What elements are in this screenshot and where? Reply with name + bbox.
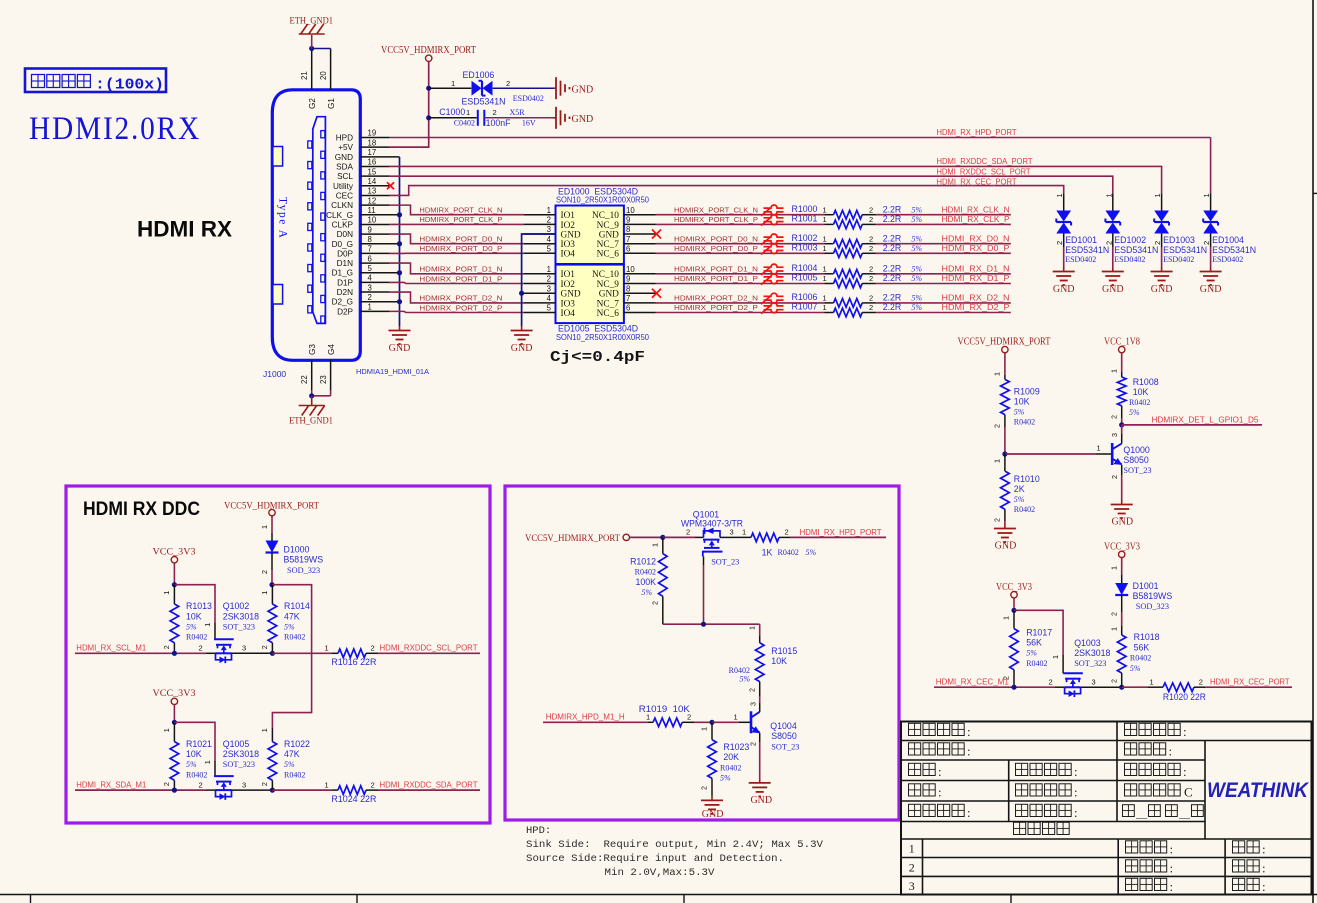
svg-text:1: 1 <box>260 525 269 529</box>
svg-text::: : <box>1074 805 1078 820</box>
junction gate node <box>701 622 706 627</box>
resistor R1024 22R <box>272 780 378 804</box>
wire gate node to R1015 <box>759 624 761 636</box>
sheet title HDMI2.0RX <box>29 111 201 147</box>
title cell 纸张型号C <box>1125 784 1193 800</box>
pin 1 D2P <box>337 303 390 317</box>
svg-text:1: 1 <box>1104 193 1113 197</box>
svg-text:20: 20 <box>319 71 328 80</box>
tvs diode ED1004 <box>1202 193 1256 263</box>
wire HDMIRX_PORT_D0_P <box>390 252 524 254</box>
power port VCC_3V3 d1001 <box>1104 542 1140 558</box>
junction chip GND ED1005 <box>519 291 524 296</box>
pin 22 stub <box>300 360 312 396</box>
svg-text:B5819WS: B5819WS <box>1133 591 1173 601</box>
svg-text:3: 3 <box>730 528 734 537</box>
resistor R1019 10K <box>639 704 694 727</box>
wire D1000 to junction <box>260 553 272 585</box>
svg-text:HDMI_RX_SCL_M1: HDMI_RX_SCL_M1 <box>76 644 146 653</box>
svg-text::: : <box>1183 764 1187 779</box>
svg-text:17: 17 <box>368 148 377 157</box>
svg-text:10: 10 <box>368 216 377 225</box>
svg-text:1: 1 <box>1055 193 1064 197</box>
svg-text:ESD0402: ESD0402 <box>1114 255 1145 264</box>
junction VCC R1013 <box>172 582 177 587</box>
svg-text:GND: GND <box>702 809 724 820</box>
svg-text:HDMI_RX_D0_N: HDMI_RX_D0_N <box>942 234 1010 243</box>
svg-text:3: 3 <box>242 644 246 653</box>
svg-text:G1: G1 <box>327 98 336 109</box>
pin 11 CLK_G <box>326 206 399 220</box>
svg-text:2: 2 <box>493 108 497 117</box>
wire HDMIRX_PORT_CLK_P row <box>656 223 825 225</box>
svg-text:R0402: R0402 <box>1129 398 1150 407</box>
svg-text::: : <box>967 744 971 759</box>
wire HDMI_RX_CLK_N out <box>876 214 1011 216</box>
pin 5 D1_G <box>332 264 400 278</box>
mosfet Q1005 2SK3018 <box>199 739 273 800</box>
svg-text:GND: GND <box>511 343 533 354</box>
svg-text:WPM3407-3/TR: WPM3407-3/TR <box>681 518 743 528</box>
svg-text:D1001: D1001 <box>1133 581 1159 591</box>
svg-text:15: 15 <box>368 167 377 176</box>
wire ED1001 to GND <box>1063 247 1065 267</box>
net label HDMIRX_PORT_D2_N mid <box>674 294 758 303</box>
svg-text:1: 1 <box>325 644 329 653</box>
svg-text:C: C <box>1184 785 1193 800</box>
svg-text:2.2R: 2.2R <box>883 302 902 312</box>
svg-text:2: 2 <box>162 782 171 786</box>
svg-text:23: 23 <box>319 375 328 384</box>
esd array ED1005 <box>524 265 656 342</box>
power port VCC5V_HDMIRX_PORT hpd <box>525 534 630 544</box>
junction GND bus pin 2 <box>397 299 402 304</box>
svg-text:10K: 10K <box>186 611 202 621</box>
mosfet Q1002 2SK3018 <box>199 601 273 663</box>
svg-text:7: 7 <box>368 245 372 254</box>
svg-text:HDMI_RX_D2_N: HDMI_RX_D2_N <box>942 294 1010 303</box>
net label HDMIRX_HPD_M1_H <box>546 713 625 722</box>
transistor Q1004 S8050 <box>751 711 799 751</box>
tvs diode ED1001 <box>1055 193 1109 263</box>
svg-text:16V: 16V <box>522 118 536 127</box>
svg-text:3: 3 <box>368 283 372 292</box>
svg-text:2: 2 <box>1049 677 1053 686</box>
pin 23 stub <box>319 360 331 396</box>
svg-text:S8050: S8050 <box>771 731 797 741</box>
resistor R1021 <box>162 722 212 790</box>
svg-text:1: 1 <box>823 303 827 312</box>
junction ETH top <box>309 46 314 51</box>
title row 1 number <box>909 842 915 856</box>
wire HDMI_RX_CLK_P out <box>876 223 1011 225</box>
svg-text:1: 1 <box>823 205 827 214</box>
svg-text:5%: 5% <box>284 760 295 769</box>
svg-text::: : <box>1262 842 1266 857</box>
pin 2 D2_G <box>332 293 400 307</box>
svg-text:1: 1 <box>325 780 329 789</box>
svg-text:1: 1 <box>1150 677 1154 686</box>
svg-text:1: 1 <box>547 265 551 274</box>
svg-text:CLK_G: CLK_G <box>326 211 353 220</box>
section frame HPD <box>505 486 899 820</box>
title cell 完成时间 <box>1016 804 1078 820</box>
pin 15 SCL <box>337 167 390 181</box>
logo WEATHINK <box>1207 779 1310 802</box>
svg-text:2.2R: 2.2R <box>883 273 902 283</box>
svg-text:2: 2 <box>748 742 757 746</box>
net label HDMIRX_PORT_D2_P mid <box>674 303 758 312</box>
svg-text:1: 1 <box>823 274 827 283</box>
title cell 受控类型 <box>1125 763 1187 779</box>
junction VCC R1021 <box>172 720 177 725</box>
svg-text:GND: GND <box>599 290 619 300</box>
diode D1001 B5819WS <box>1115 581 1172 611</box>
svg-text:Q1004: Q1004 <box>770 721 797 731</box>
svg-text:CLKP: CLKP <box>332 220 354 229</box>
junction row R1021 <box>172 788 177 793</box>
svg-text:5%: 5% <box>1130 664 1141 673</box>
title row 3 日期 <box>1233 878 1266 894</box>
wire HDMI_RX_D0_N out <box>876 243 1011 245</box>
svg-text:1: 1 <box>1109 369 1118 373</box>
svg-text:10K: 10K <box>186 749 202 759</box>
svg-text:HDMI_RX_SDA_M1: HDMI_RX_SDA_M1 <box>76 781 146 790</box>
wire VCC5V to Q1001 <box>630 536 663 538</box>
svg-text:R0402: R0402 <box>1130 654 1151 663</box>
svg-text:3: 3 <box>1110 433 1119 437</box>
svg-text:HDMIRX_PORT_CLK_P: HDMIRX_PORT_CLK_P <box>674 215 758 224</box>
svg-text:1: 1 <box>1109 627 1118 631</box>
svg-text:7: 7 <box>626 294 630 303</box>
svg-text:Utility: Utility <box>333 182 354 191</box>
svg-text:2.2R: 2.2R <box>883 233 902 243</box>
power port VCC_1V8 <box>1104 337 1140 353</box>
junction row R1013 <box>172 651 177 656</box>
net label HDMI_RX_D0_N <box>942 234 1010 243</box>
svg-text:R0402: R0402 <box>1014 505 1035 514</box>
svg-text::: : <box>1262 861 1266 876</box>
svg-text:R1012: R1012 <box>630 557 656 567</box>
svg-text:2: 2 <box>547 275 551 284</box>
svg-text:2: 2 <box>506 79 510 88</box>
ground under connector <box>389 326 411 354</box>
svg-text:2: 2 <box>1199 677 1203 686</box>
svg-text:D0N: D0N <box>337 230 353 239</box>
wire to gate Q1005 <box>174 722 215 776</box>
wire cec port out <box>1205 686 1292 688</box>
wire D1000 to R1014/R1022 <box>272 585 312 728</box>
svg-text:VCC5V_HDMIRX_PORT: VCC5V_HDMIRX_PORT <box>525 534 620 544</box>
pin 6 D1N <box>337 254 390 268</box>
no-connect pin 14 <box>387 182 394 189</box>
svg-text:Source Side:Require input and: Source Side:Require input and Detection. <box>526 853 784 865</box>
svg-text:1: 1 <box>823 234 827 243</box>
svg-text:HDMI_RX_CEC_M1: HDMI_RX_CEC_M1 <box>936 678 1009 687</box>
svg-text:VCC5V_HDMIRX_PORT: VCC5V_HDMIRX_PORT <box>381 45 476 56</box>
svg-text:2: 2 <box>869 244 873 253</box>
svg-text:9: 9 <box>626 216 630 225</box>
ground ED1004 <box>1200 267 1222 295</box>
svg-text:Sink Side: Require output, Mi: Sink Side: Require output, Min 2.4V; Max… <box>526 839 824 851</box>
wire hpd port out <box>790 536 886 538</box>
pin 14 Utility <box>333 177 390 191</box>
svg-text:SOT_23: SOT_23 <box>771 742 799 751</box>
net label HDMI_RX_CEC_PORT <box>1210 678 1290 687</box>
resistor R1015 10K <box>729 626 798 696</box>
power port VCC5V_HDMIRX_PORT right <box>958 337 1051 353</box>
svg-text:3: 3 <box>748 702 757 706</box>
wire VCC5V riser to pin 18 <box>390 62 429 148</box>
diffpair directive HDMIRX_PORT_CLK_N <box>761 205 784 216</box>
svg-text:ED1002: ED1002 <box>1114 235 1146 245</box>
svg-text:6: 6 <box>368 254 372 263</box>
svg-text:D0P: D0P <box>337 249 353 258</box>
svg-text:SOD_323: SOD_323 <box>1136 602 1169 611</box>
connector mounting tab lower <box>273 285 283 305</box>
svg-text:R0402: R0402 <box>778 548 799 557</box>
svg-text:ESD5341N: ESD5341N <box>1163 245 1207 255</box>
svg-text:10: 10 <box>626 265 635 274</box>
connector label Type A <box>277 197 289 239</box>
svg-text:HDMI RX DDC: HDMI RX DDC <box>83 499 200 520</box>
svg-text:IO2: IO2 <box>561 221 576 231</box>
svg-text:1: 1 <box>650 543 659 547</box>
svg-text:GND: GND <box>599 230 619 240</box>
net label HDMIRX_PORT_D1_P mid <box>674 274 758 283</box>
svg-text::: : <box>1074 785 1078 800</box>
ground R1010 <box>994 524 1016 552</box>
svg-text::: : <box>1170 842 1174 857</box>
net label HDMIRX_PORT_CLK_P mid <box>674 215 758 224</box>
svg-text:R1018: R1018 <box>1134 632 1160 642</box>
mosfet Q1003 2SK3018 <box>1049 638 1122 697</box>
wire to C1000 <box>429 117 477 119</box>
svg-text:R1005: R1005 <box>792 273 818 283</box>
svg-text:2: 2 <box>199 644 203 653</box>
svg-text:R1010: R1010 <box>1014 474 1040 484</box>
svg-text:2.2R: 2.2R <box>883 214 902 224</box>
wire to ED1006 <box>429 87 472 89</box>
net label HDMI_RXDDC_SDA_PORT <box>937 157 1033 166</box>
svg-text:1: 1 <box>451 79 455 88</box>
ground Q1000 <box>1111 500 1133 528</box>
junction R1017 top <box>1011 608 1016 613</box>
resistor R1022 47K <box>260 728 310 790</box>
svg-text:ED1001: ED1001 <box>1065 235 1097 245</box>
svg-text:B5819WS: B5819WS <box>284 555 324 565</box>
title cell 共页第页 <box>1123 805 1204 820</box>
net label HDMI_RX_D2_P <box>942 303 1011 312</box>
title cell 文件编号 <box>909 743 971 759</box>
svg-text:Q1003: Q1003 <box>1074 638 1101 648</box>
svg-text::: : <box>967 805 971 820</box>
svg-text:22: 22 <box>300 375 309 384</box>
net label HDMIRX_PORT_D0_P mid <box>674 244 758 253</box>
label HDMI RX DDC <box>83 499 200 520</box>
pin 21 stub <box>300 49 312 90</box>
power port VCC5V_HDMIRX_PORT ddc <box>224 502 319 516</box>
svg-text:X5R: X5R <box>510 108 526 117</box>
svg-text::: : <box>1170 879 1174 894</box>
ground under chips <box>511 326 533 354</box>
resistor R1012 100K <box>630 537 667 624</box>
power port VCC_3V3 R1013 <box>153 547 196 563</box>
svg-text:HDMIRX_PORT_D2_N: HDMIRX_PORT_D2_N <box>674 294 758 303</box>
wire HDMIRX_PORT_D1_P row <box>656 283 825 285</box>
wire HDMIRX_PORT_D1_N row <box>656 273 825 275</box>
svg-text:GND: GND <box>572 84 594 95</box>
svg-text:47K: 47K <box>284 611 300 621</box>
svg-text:NC_7: NC_7 <box>597 299 620 309</box>
svg-text:C1000: C1000 <box>439 107 465 117</box>
svg-text:8: 8 <box>368 235 372 244</box>
svg-text:2: 2 <box>747 688 756 692</box>
title row 2 number <box>909 861 915 875</box>
wire ED1003 to GND <box>1161 247 1163 267</box>
wire HDMIRX_PORT_D0_N row <box>656 243 825 245</box>
svg-text:5: 5 <box>547 304 552 313</box>
svg-text:4: 4 <box>547 235 552 244</box>
svg-text::: : <box>938 764 942 779</box>
power port VCC5V_HDMIRX_PORT <box>381 45 476 62</box>
svg-text:SOT_23: SOT_23 <box>711 558 739 567</box>
svg-text:R0402: R0402 <box>1014 417 1035 426</box>
title cell 开始时间 <box>909 804 971 820</box>
svg-text:SCL: SCL <box>337 172 353 181</box>
wire HDMIRX_DET out <box>1122 424 1262 426</box>
wire out HDMI_RXDDC_SDA_PORT <box>378 789 480 791</box>
resistor R1014 47K <box>260 585 310 654</box>
svg-text:R1013: R1013 <box>186 601 212 611</box>
svg-text:14: 14 <box>368 177 377 186</box>
net label HDMI_RX_D1_P <box>942 274 1011 283</box>
wire Q1004 emitter to GND <box>748 733 759 778</box>
wire VCC_3V3 drop R1021 <box>173 705 175 723</box>
svg-text:2: 2 <box>993 424 1002 428</box>
wire VCC_3V3 to D1001 <box>1109 558 1121 583</box>
net label HDMI_RX_D1_N <box>942 264 1010 273</box>
resistor R1001 2.2R <box>792 214 923 229</box>
svg-text:56K: 56K <box>1134 642 1150 652</box>
transistor Q1000 S8050 <box>1112 443 1151 475</box>
diffpair directive HDMIRX_PORT_D0_N <box>761 234 784 245</box>
svg-text:2: 2 <box>869 234 873 243</box>
svg-text:3: 3 <box>1092 677 1096 686</box>
svg-text:1: 1 <box>1109 566 1118 570</box>
svg-text:ETH_GND1: ETH_GND1 <box>290 17 334 27</box>
svg-text:HDMIRX_PORT_D2_N: HDMIRX_PORT_D2_N <box>419 294 502 303</box>
wire ETH top riser <box>311 35 313 49</box>
junction GND bus pin 11 <box>397 212 402 217</box>
svg-text:5%: 5% <box>911 234 922 243</box>
svg-text:+5V: +5V <box>338 143 353 152</box>
svg-text:HDMI_RX_D2_P: HDMI_RX_D2_P <box>942 303 1011 312</box>
svg-text:16: 16 <box>368 158 377 167</box>
svg-text:2: 2 <box>1104 241 1113 245</box>
svg-text:2SK3018: 2SK3018 <box>223 749 259 759</box>
svg-text:D1000: D1000 <box>284 545 310 555</box>
svg-text:2: 2 <box>260 570 269 574</box>
svg-text:6: 6 <box>626 304 630 313</box>
sheet border right edge <box>1313 0 1317 903</box>
svg-text:HPD:: HPD: <box>526 825 551 837</box>
svg-text:HDMIRX_PORT_D1_N: HDMIRX_PORT_D1_N <box>419 265 502 274</box>
connector blade <box>313 117 326 324</box>
ground Q1004 <box>749 778 772 806</box>
svg-text:GND: GND <box>1200 284 1222 295</box>
wire R1008 to junction <box>1121 418 1123 425</box>
svg-text:2: 2 <box>993 518 1002 522</box>
svg-text:1: 1 <box>1097 444 1101 453</box>
svg-text:1: 1 <box>162 728 171 732</box>
svg-text:HDMI_RX_D1_P: HDMI_RX_D1_P <box>942 274 1011 283</box>
svg-text:J1000: J1000 <box>263 369 286 379</box>
svg-text:HDMI_RXDDC_SCL_PORT: HDMI_RXDDC_SCL_PORT <box>937 168 1031 177</box>
svg-text:__: __ <box>1178 808 1191 820</box>
wire base to Q1004 <box>712 713 751 723</box>
net label HDMIRX_PORT_CLK_N left <box>419 206 502 215</box>
svg-text:HDMI_RX_HPD_PORT: HDMI_RX_HPD_PORT <box>800 528 882 537</box>
svg-text::: : <box>1183 724 1187 739</box>
connector part HDMIA19_HDMI_01A <box>356 367 429 376</box>
svg-text:NC_10: NC_10 <box>592 270 619 280</box>
svg-text:SOT_23: SOT_23 <box>1123 466 1151 475</box>
svg-text::: : <box>1074 764 1078 779</box>
svg-text:HDMI_RX_CEC_PORT: HDMI_RX_CEC_PORT <box>1210 678 1290 687</box>
title cell 修改记录 <box>1014 822 1070 834</box>
svg-text:Q1000: Q1000 <box>1123 445 1150 455</box>
wire HDMIRX_PORT_D1_N <box>390 263 524 274</box>
svg-text:2: 2 <box>785 528 789 537</box>
net label HDMI_RX_D2_N <box>942 294 1010 303</box>
svg-text:D2P: D2P <box>337 307 353 316</box>
svg-text:8: 8 <box>626 225 630 234</box>
svg-text:HDMIA19_HDMI_01A: HDMIA19_HDMI_01A <box>356 367 429 376</box>
svg-text:IO3: IO3 <box>561 299 576 309</box>
svg-text:100K: 100K <box>635 577 656 587</box>
wire GND bus from pin 17 <box>399 157 401 326</box>
svg-text:GND: GND <box>1053 284 1075 295</box>
svg-text:SDA: SDA <box>336 162 353 171</box>
title row 3 number <box>909 879 915 893</box>
svg-text:R0402: R0402 <box>186 770 207 779</box>
svg-text:NC_6: NC_6 <box>597 250 620 260</box>
svg-text:HDMIRX_PORT_D1_P: HDMIRX_PORT_D1_P <box>419 274 502 283</box>
svg-text:ESD0402: ESD0402 <box>1212 255 1243 264</box>
tvs diode ED1003 <box>1153 193 1207 263</box>
svg-text:IO2: IO2 <box>561 280 576 290</box>
svg-text:5%: 5% <box>720 774 731 783</box>
wire chip GND bus <box>522 234 556 326</box>
svg-text:5%: 5% <box>186 760 197 769</box>
svg-text:HPD: HPD <box>336 134 353 143</box>
svg-text:Type A: Type A <box>277 197 289 239</box>
svg-text:HDMIRX_PORT_D0_N: HDMIRX_PORT_D0_N <box>419 235 502 244</box>
wire VCC_3V3 to junction cec <box>1013 598 1015 610</box>
wire SDA long <box>390 166 1162 193</box>
svg-text:D1_G: D1_G <box>332 269 353 278</box>
svg-text:__: __ <box>1135 808 1148 820</box>
junction row R1014 <box>270 651 275 656</box>
resistor R1009 10K <box>993 372 1040 428</box>
svg-text:HDMIRX_PORT_D2_P: HDMIRX_PORT_D2_P <box>419 303 502 312</box>
title cell 项目名称 <box>909 723 971 739</box>
resistor R1018 56K <box>1109 626 1159 687</box>
wire D1001 to R1018 <box>1109 595 1121 626</box>
junction collector node <box>1119 422 1124 427</box>
pin 8 D0_G <box>332 235 400 249</box>
